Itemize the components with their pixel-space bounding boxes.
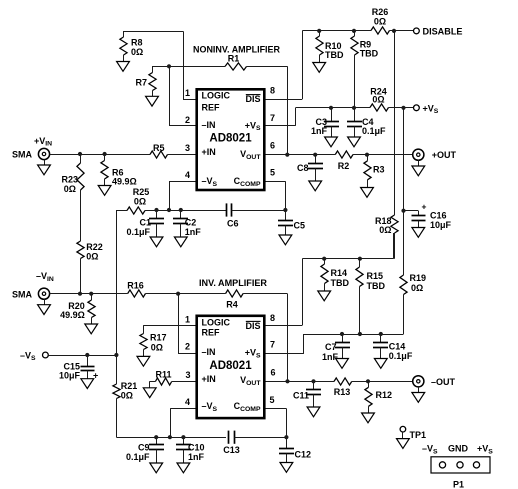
wire R24 to +VS terminal [389,107,414,109]
wire R5 to pin3 [168,154,197,156]
resistor R23 [77,163,84,190]
test point TP1 [400,426,406,432]
svg-text:C9: C9 [138,442,150,452]
ground C14 [374,359,387,369]
wire R3 to ground [367,180,369,188]
wire pin1 lower [143,325,196,327]
junction C3 [329,106,333,110]
ground R6 [98,186,111,196]
capacitor C10 [176,437,191,463]
junction feedback [285,153,289,157]
svg-text:3: 3 [185,370,190,380]
connector P1 [431,457,490,473]
wire C6 to C5 [232,210,286,212]
ground C11 [307,407,320,417]
wire vertical to pin1 [183,31,185,99]
resistor R6 [101,161,108,180]
wire +VS rail down [403,108,405,275]
ground C5 [279,235,292,245]
wire R4 to feedback [243,293,287,295]
resistor R20 [88,300,95,318]
SMA connector +VIN [38,148,49,159]
wire R6 to ground [104,179,106,186]
wire -VS rail upper [116,210,118,355]
svg-text:4: 4 [185,170,190,180]
wire R6 lead [104,154,106,161]
svg-text:1nF: 1nF [185,227,202,237]
capacitor C12 [279,437,294,462]
resistor R15 [356,267,363,287]
wire bottom row left [116,437,226,439]
capacitor C3 [324,108,339,137]
svg-text:7: 7 [270,339,275,349]
svg-text:–IN: –IN [202,347,216,357]
svg-text:R12: R12 [376,390,393,400]
svg-text:R4: R4 [226,300,238,310]
wire R14 to ground [324,284,326,292]
svg-text:10μF: 10μF [430,220,452,230]
wire +VS rail [296,107,371,109]
svg-text:C6: C6 [227,219,239,229]
wire pin8 lower [265,325,302,327]
wire -VS rail mid [116,355,118,384]
resistor R18 [391,215,398,233]
resistor R24 [370,104,389,111]
wire R23 to R22 [80,190,82,241]
svg-text:8: 8 [270,85,275,95]
svg-text:2: 2 [185,341,190,351]
svg-text:GND: GND [448,444,469,454]
wire pin7 lower [265,353,304,355]
wire to R23 [80,154,82,163]
svg-text:0Ω: 0Ω [151,342,163,352]
wire R22 to -VIN node [80,259,82,294]
svg-text:0.1μF: 0.1μF [389,351,413,361]
resistor R22 [77,241,84,259]
svg-text:P1: P1 [453,479,464,489]
ground R20 [85,324,98,334]
ground TP1 [397,439,410,449]
junction R23 tap [78,152,82,156]
junction C11 [311,379,315,383]
junction pin4 [167,208,171,212]
wire TP1 to ground [402,432,404,439]
svg-text:49.9Ω: 49.9Ω [112,177,137,187]
svg-text:8: 8 [270,313,275,323]
ground R17 [137,356,150,366]
ground R8 [117,62,130,72]
wire pin4 lower down [170,409,172,438]
ground C4 [348,137,361,147]
wire pin5 [265,181,285,183]
svg-text:0Ω: 0Ω [372,95,384,105]
svg-text:0Ω: 0Ω [86,251,98,261]
wire +OUT ground lead [418,160,420,166]
wire R12 to ground [368,406,370,413]
op-amp U1 AD8021 (noninverting) [197,89,265,190]
junction R6 tap [103,152,107,156]
wire DIS vertical [302,31,304,99]
svg-text:C16: C16 [430,210,447,220]
svg-text:DISABLE: DISABLE [423,26,463,36]
wire R8 to ground [123,55,125,62]
svg-text:C10: C10 [188,442,205,452]
wire pin5 down [285,181,287,210]
wire R14 lead [324,259,326,264]
wire pin5 lower [265,408,286,410]
junction C8 [313,153,317,157]
wire R3 lead [367,155,369,161]
wire lower DIS vertical [302,259,304,326]
svg-text:DIS: DIS [245,321,260,331]
wire pin5 lower down [286,409,288,438]
svg-text:0Ω: 0Ω [121,391,133,401]
svg-text:TBD: TBD [367,281,386,291]
resistor R21 [113,384,120,399]
resistor R3 [364,161,371,180]
wire -VS row [48,355,116,357]
junction R20 [89,292,93,296]
junction C2 [179,208,183,212]
svg-text:INV. AMPLIFIER: INV. AMPLIFIER [199,278,268,288]
junction C4 [352,106,356,110]
wire DISABLE to R18 [394,31,396,215]
svg-text:6: 6 [270,141,275,151]
resistor R12 [365,387,372,406]
wire -VIN to R16 [50,293,128,295]
svg-text:C11: C11 [293,390,309,400]
wire R11 down [149,381,151,388]
svg-text:R16: R16 [127,281,144,291]
wire VOUT [265,154,335,156]
svg-text:0Ω: 0Ω [134,196,146,206]
junction R22 bottom [78,292,82,296]
junction pin4 lower [168,435,172,439]
wire pin2 [169,125,197,127]
ground R7 [146,96,159,106]
svg-text:R17: R17 [150,333,167,343]
svg-text:0.1μF: 0.1μF [362,126,386,136]
capacitor C2 [173,210,188,237]
wire bottom row right [234,437,286,439]
wire R11 to pin3 [172,381,197,383]
svg-text:10μF: 10μF [59,371,81,381]
ground R12 [362,413,375,423]
wire pin7 lower up [303,334,305,354]
wire R19 to lower +VS [403,295,405,335]
resistor R16 [128,290,146,297]
junction C10 [181,435,185,439]
wire R8 to pin1 top [123,31,183,33]
ground C7 [336,359,349,369]
resistor R14 [321,264,328,284]
wire pin1 [183,99,197,101]
SMA connector +OUT [413,149,424,160]
capacitor C15 polarized [81,355,95,379]
wire DISABLE rail [302,30,371,32]
junction R12 [366,379,370,383]
svg-text:3: 3 [185,143,190,153]
junction C7 [340,332,344,336]
svg-text:R14: R14 [331,268,348,278]
junction +VS rail [401,106,405,110]
ground C1 [150,237,163,247]
wire R25 to C6 [145,210,226,212]
wire pin4 [169,181,197,183]
svg-text:+IN: +IN [202,147,216,157]
junction C14 [379,332,383,336]
svg-text:R7: R7 [135,78,147,88]
ground R14 [318,291,331,301]
op-amp U2 AD8021 (inverting) [197,316,265,418]
svg-text:1: 1 [185,314,190,324]
ground -OUT [412,393,425,403]
svg-text:R19: R19 [410,273,427,283]
svg-text:1nF: 1nF [188,452,205,462]
svg-text:–IN: –IN [202,120,216,130]
wire R1 to feedback [247,66,288,68]
capacitor C4 [347,108,362,137]
svg-text:1nF: 1nF [322,352,339,362]
capacitor C7 [335,334,350,359]
wire R9 to +VS rail [354,55,356,108]
svg-text:–OUT: –OUT [431,377,456,387]
svg-text:0.1μF: 0.1μF [126,227,150,237]
capacitor C6 [227,203,232,216]
wire pin7 up [295,108,297,126]
wire R18 to lower DIS [394,233,396,259]
svg-text:TP1: TP1 [410,430,427,440]
capacitor C5 [278,210,293,235]
svg-text:0Ω: 0Ω [64,184,76,194]
wire feedback vertical lower [287,294,289,382]
capacitor C14 [373,334,388,359]
wire R8 lead [123,31,125,37]
resistor R17 [140,334,147,350]
resistor R5 [150,151,168,158]
svg-text:R21: R21 [121,381,138,391]
wire R17 to ground [143,350,145,357]
wire lower DIS to R18 [393,233,395,259]
svg-text:DIS: DIS [245,94,260,104]
ground C16 [412,228,425,238]
wire R12 lead [368,381,370,387]
junction R3 [365,153,369,157]
wire to C16 [404,210,419,212]
wire R15 lead [359,259,361,267]
wire R20 to ground [91,318,93,325]
wire to pin2 [169,66,171,126]
svg-text:AD8021: AD8021 [209,133,252,145]
ground C8 [309,181,322,191]
wire R17 lead [143,325,145,333]
svg-text:5: 5 [270,168,275,178]
node -IN junction [167,64,171,68]
terminal DISABLE [414,28,420,34]
svg-text:49.9Ω: 49.9Ω [60,310,85,320]
junction -IN lower [176,292,180,296]
wire to R25 [116,210,127,212]
wire R26 to DISABLE terminal [390,30,414,32]
svg-text:7: 7 [270,113,275,123]
junction R15 [358,257,362,261]
resistor R26 [371,27,390,34]
wire pin4 down [169,181,171,210]
ground SMA -VIN [38,305,51,315]
wire to pin2 lower [178,294,180,354]
capacitor C16 polarized [412,211,426,228]
svg-text:AD8021: AD8021 [209,360,252,372]
resistor R4 [226,290,244,297]
svg-text:R13: R13 [334,387,351,397]
svg-text:TBD: TBD [331,278,350,288]
svg-text:R11: R11 [155,370,171,380]
svg-text:5: 5 [269,395,274,405]
svg-text:C7: C7 [325,342,337,352]
junction C9 [154,435,158,439]
wire lower +VS rail [304,334,404,336]
svg-text:0Ω: 0Ω [379,225,391,235]
resistor R2 [335,151,353,158]
junction R15 bottom [358,332,362,336]
junction C1 [154,208,158,212]
ground C2 [174,237,187,247]
svg-text:1nF: 1nF [311,126,328,136]
wire R13 to -OUT [352,381,413,383]
ground R11 [143,388,156,398]
svg-text:R3: R3 [373,164,385,174]
wire R10 to ground [319,55,321,63]
svg-text:R2: R2 [338,161,350,171]
resistor R9 [351,36,358,55]
svg-text:0.1μF: 0.1μF [126,452,150,462]
resistor R1 [225,63,247,70]
svg-text:SMA: SMA [12,289,33,299]
resistor R25 [127,207,145,214]
svg-text:+IN: +IN [202,374,216,384]
resistor R13 [334,378,352,385]
wire feedback vertical [287,66,289,154]
resistor R10 [316,36,323,55]
wire pin2 lower [178,353,197,355]
junction C16 tap [401,209,405,213]
svg-text:6: 6 [270,368,275,378]
svg-text:R1: R1 [228,54,240,64]
ground R3 [361,188,374,198]
junction DISABLE rail [392,29,396,33]
wire -OUT ground lead [418,387,420,393]
wire +VIN to R5 [50,154,150,156]
wire R7 to ground [152,91,154,97]
terminal +VS [414,105,420,111]
svg-text:C5: C5 [294,221,306,231]
svg-text:4: 4 [185,397,190,407]
ground C15 [81,379,94,389]
resistor R19 [400,275,407,295]
svg-text:TBD: TBD [325,50,344,60]
svg-text:C12: C12 [295,450,312,460]
wire R9 lead [354,31,356,36]
wire SMA2 ground lead [44,299,46,304]
svg-text:R15: R15 [367,271,384,281]
capacitor C9 [149,437,164,463]
svg-text:+: + [93,371,98,381]
wire pin7 [265,125,296,127]
wire R15 to lower +VS [359,287,361,335]
svg-text:REF: REF [202,328,221,338]
ground R10 [313,63,326,73]
wire R2 to +OUT [353,154,413,156]
wire SMA ground lead [44,160,46,165]
svg-text:0Ω: 0Ω [374,16,386,26]
svg-text:0Ω: 0Ω [411,283,423,293]
svg-text:2: 2 [185,115,190,125]
ground C12 [280,463,293,473]
junction C15 [85,353,89,357]
wire R16 to R4 [146,293,226,295]
svg-text:LOGIC: LOGIC [202,91,231,101]
SMA connector -OUT [413,376,424,387]
svg-text:REF: REF [202,102,221,112]
svg-text:LOGIC: LOGIC [202,318,231,328]
svg-text:1: 1 [185,88,190,98]
junction R9 [352,29,356,33]
svg-text:TBD: TBD [360,49,379,59]
resistor R11 [155,378,171,385]
capacitor C11 [306,381,321,407]
wire R21 to bottom row [116,399,118,438]
resistor R8 [120,37,127,55]
SMA connector -VIN [38,288,49,299]
capacitor C1 [149,210,164,237]
svg-text:C8: C8 [297,163,309,173]
wire R11 elbow [150,381,156,383]
wire pin8 DIS [265,99,302,101]
ground +OUT [412,166,425,176]
wire R20 lead [91,294,93,300]
junction R14 [322,257,326,261]
wire lower DIS rail [302,258,393,260]
wire -IN to R1 [152,66,225,68]
wire R10 lead [319,31,321,36]
svg-text:C13: C13 [223,445,240,455]
junction feedback lower [285,379,289,383]
capacitor C13 [229,431,235,444]
svg-text:+: + [422,202,427,212]
svg-text:R5: R5 [153,143,165,153]
wire R7 lead [152,66,154,72]
ground C9 [150,463,163,473]
svg-text:+OUT: +OUT [432,150,457,160]
junction C5 [283,208,287,212]
wire VOUT lower [265,381,334,383]
junction R10 [317,29,321,33]
svg-text:SMA: SMA [12,150,33,160]
junction C12 [284,435,288,439]
junction -VS row [114,353,118,357]
svg-text:0Ω: 0Ω [131,47,143,57]
ground SMA +VIN [38,165,51,175]
terminal -VS [43,352,49,358]
wire pin4 lower [170,408,197,410]
svg-text:C14: C14 [389,341,406,351]
ground C3 [325,137,338,147]
resistor R7 [149,73,156,91]
ground C10 [177,463,190,473]
capacitor C8 [308,155,323,181]
